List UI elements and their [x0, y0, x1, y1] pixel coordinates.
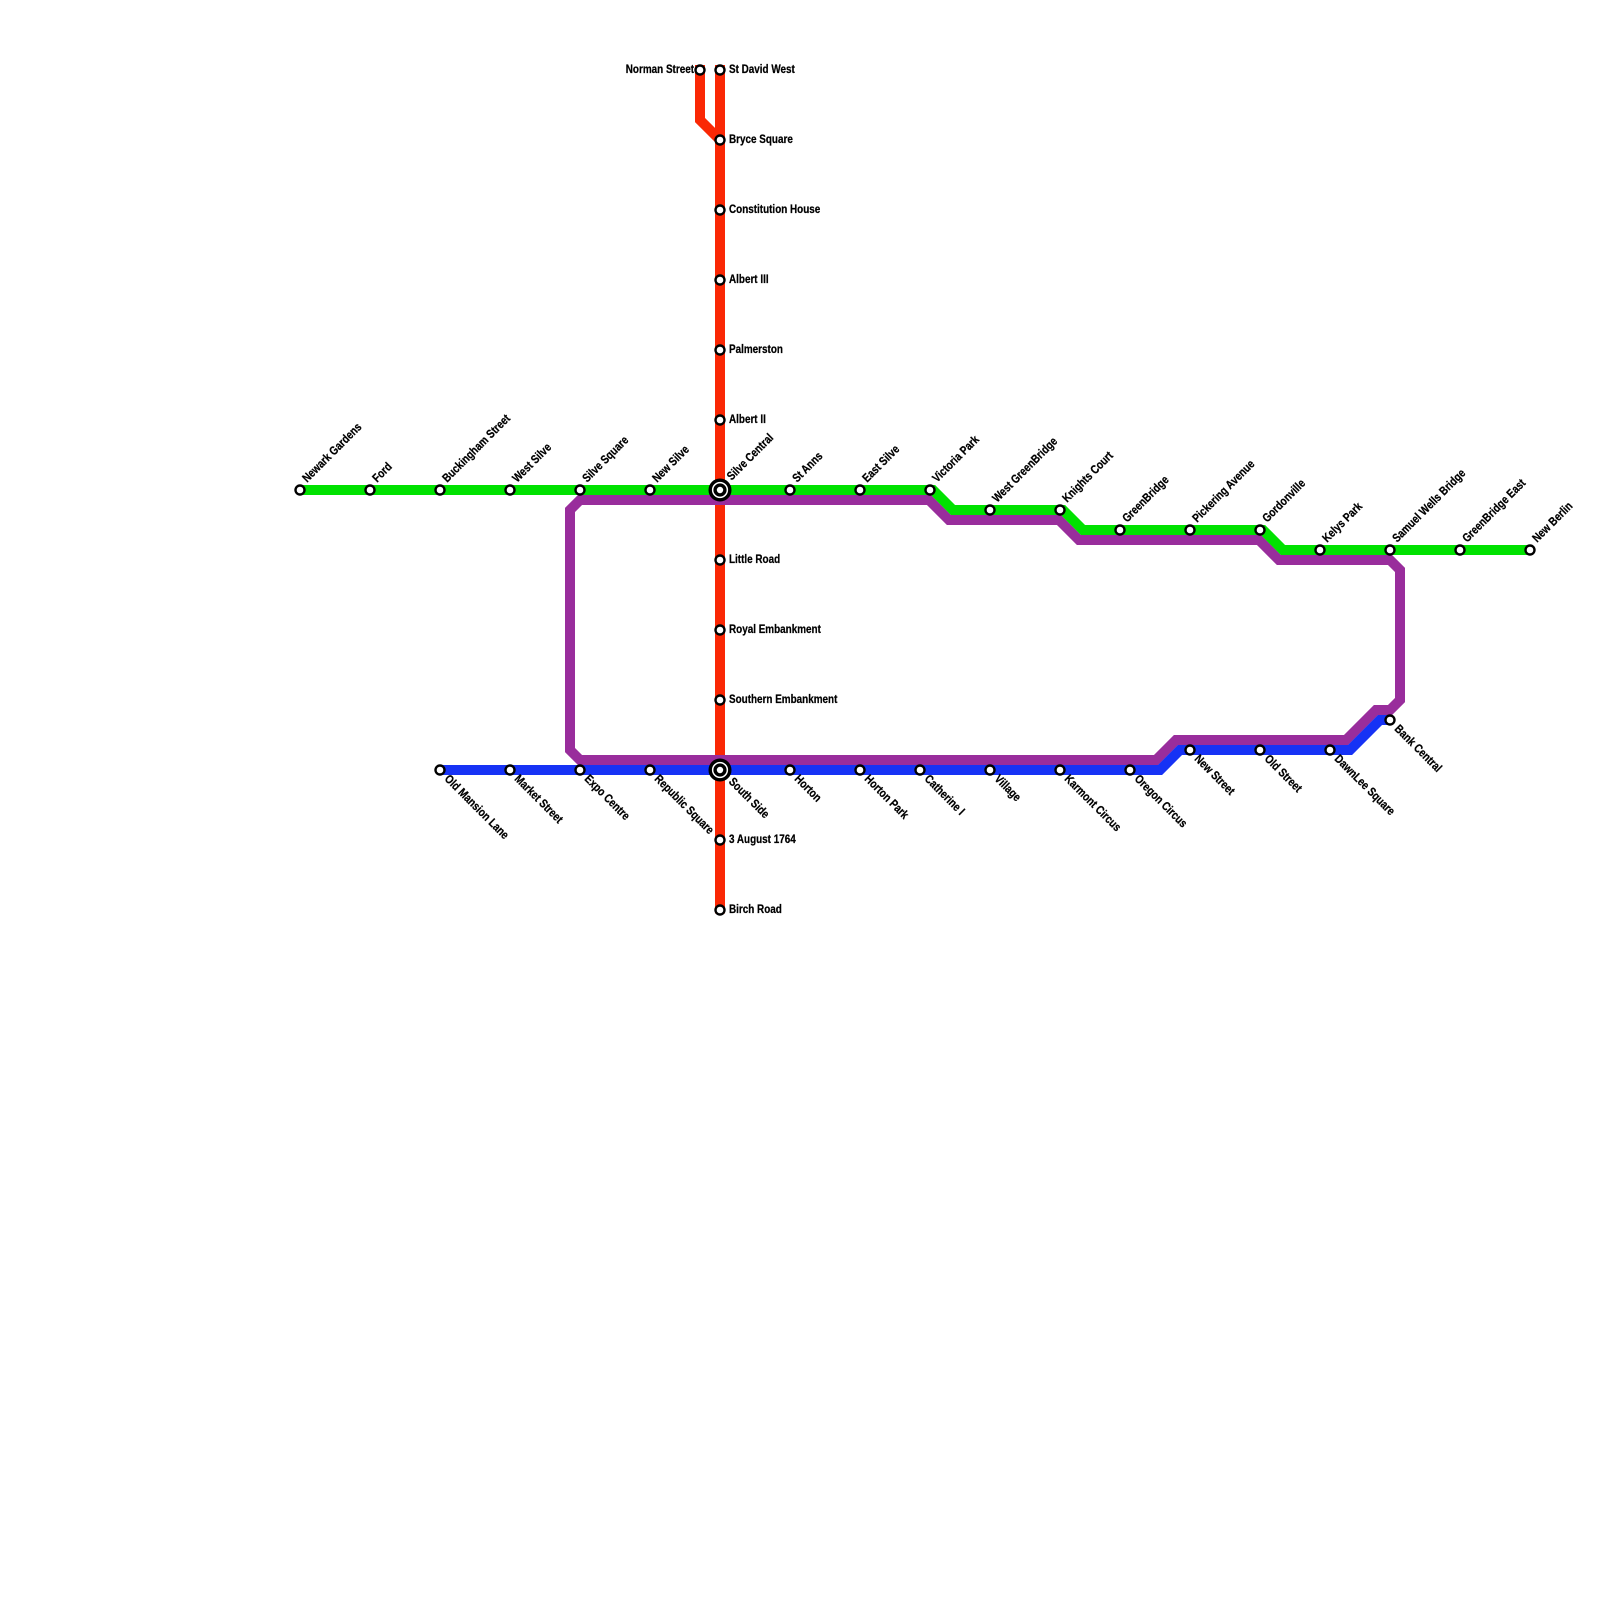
svg-text:Constitution House: Constitution House [729, 203, 820, 216]
svg-text:Albert II: Albert II [729, 413, 766, 426]
svg-text:3 August 1764: 3 August 1764 [729, 833, 797, 846]
svg-text:Little Road: Little Road [729, 553, 780, 566]
svg-text:Albert III: Albert III [729, 273, 769, 286]
svg-text:St David West: St David West [729, 63, 795, 76]
svg-text:Bryce Square: Bryce Square [729, 133, 793, 146]
svg-text:Palmerston: Palmerston [729, 343, 783, 356]
svg-text:Royal Embankment: Royal Embankment [729, 623, 821, 636]
svg-text:Southern Embankment: Southern Embankment [729, 693, 838, 706]
svg-text:Norman Street: Norman Street [626, 63, 695, 76]
svg-text:Birch Road: Birch Road [729, 903, 782, 916]
